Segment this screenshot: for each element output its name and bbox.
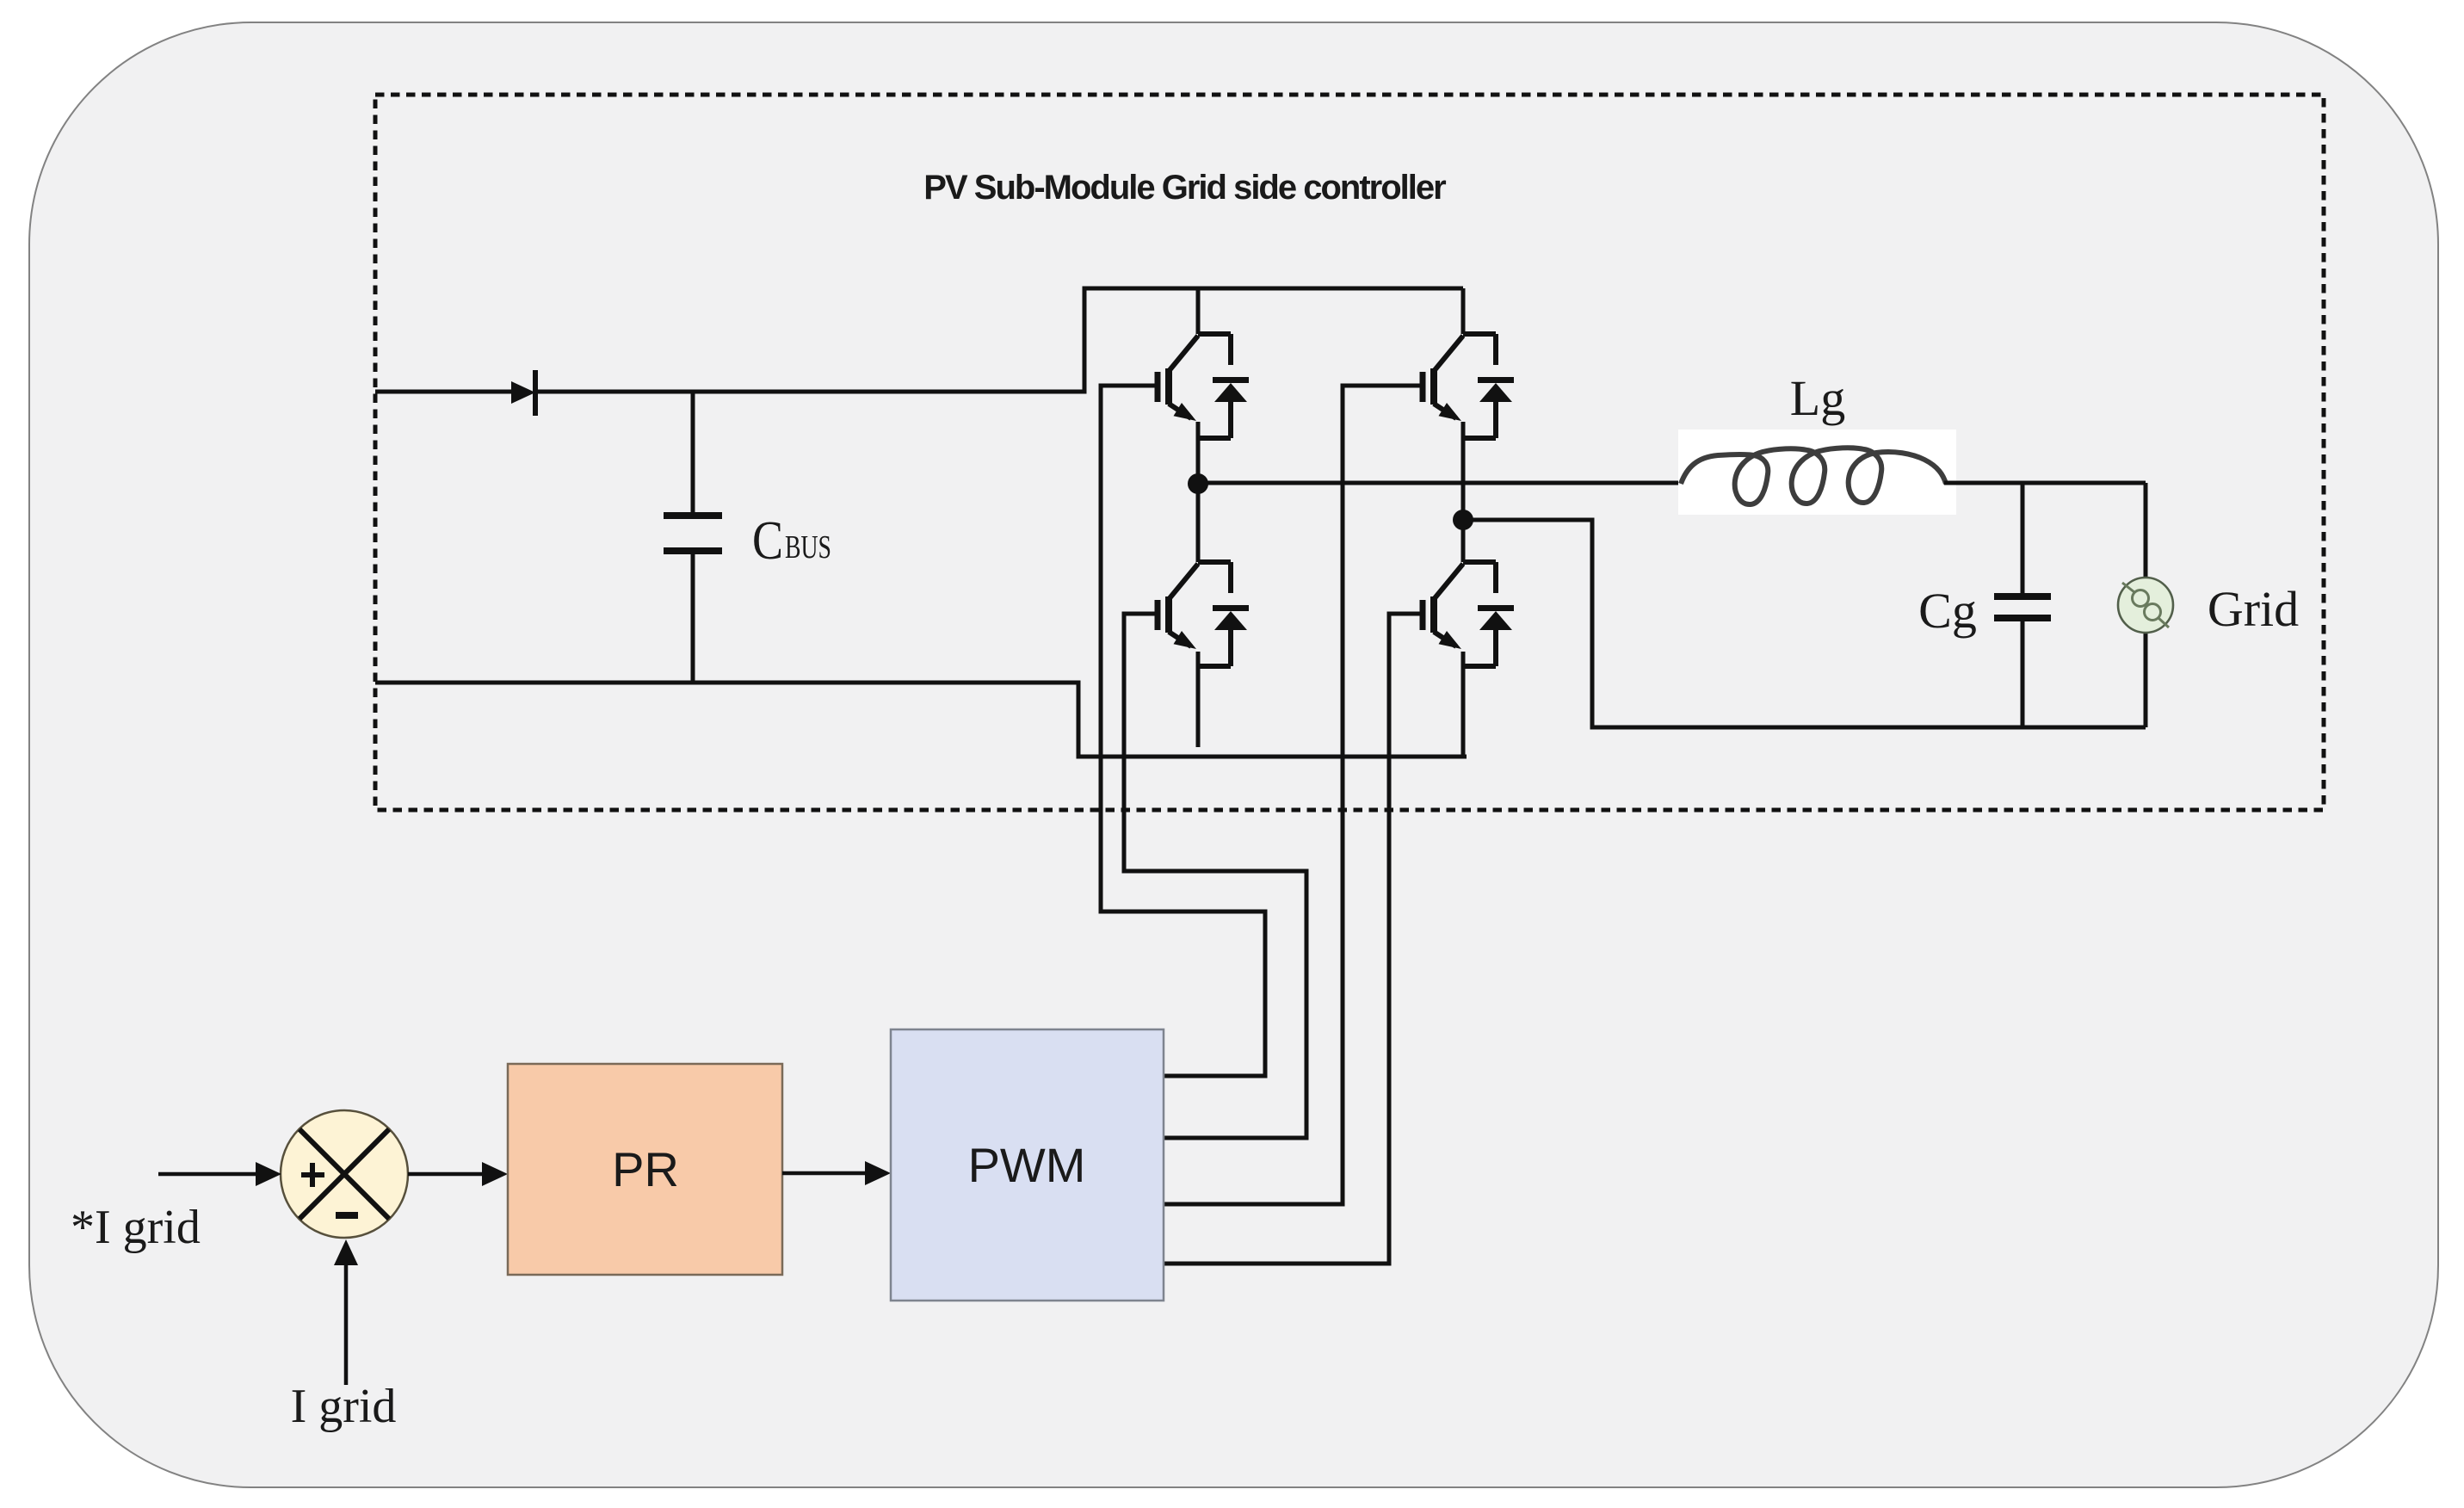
wire leg1 lower emitter: [1196, 652, 1201, 747]
wire gate drive S1 from PWM out1: [1101, 386, 1265, 1076]
wire leg1 collector: [1196, 288, 1201, 334]
wire PR to PWM: [782, 1171, 872, 1176]
wire feedback input: [344, 1257, 349, 1385]
svg-text:BUS: BUS: [785, 529, 831, 565]
wire DC+ after diode to bridge, up to top rail: [537, 288, 1463, 392]
diode D1 input blocking diode triangle: [511, 381, 535, 404]
capacitor CBUS: [664, 516, 722, 551]
svg-text:Cg: Cg: [1918, 583, 1977, 639]
grid chain-link icon: [2122, 583, 2169, 627]
arrowhead into summing junction left: [256, 1162, 281, 1186]
wire Cg top lead: [2021, 483, 2025, 597]
wire leg2 emitter to midpoint to S4: [1461, 422, 1466, 562]
arrowhead into PR: [482, 1162, 508, 1186]
block PWM modulator: [891, 1029, 1164, 1301]
minus sign: [336, 1212, 358, 1219]
transistor S4 (bottom-right IGBT with diode): [1423, 562, 1514, 666]
wire reference input: [158, 1172, 262, 1177]
plus sign: [301, 1163, 324, 1187]
wire DC+ input from dashed box edge: [375, 390, 513, 394]
wire AC output node A to grid: [1198, 481, 2146, 485]
wire DC- bottom bus: [375, 683, 1467, 757]
wire Lg exit stub: [1944, 481, 1957, 485]
transistor S2 (bottom-left IGBT with diode): [1158, 562, 1249, 666]
diode D1 cathode bar: [533, 370, 538, 416]
dashed controller box: [375, 95, 2324, 810]
inductor Lg white backdrop: [1678, 430, 1956, 515]
svg-text:PR: PR: [612, 1142, 679, 1196]
wire gate drive S2 from PWM out2: [1124, 614, 1306, 1138]
inductor Lg coil: [1681, 448, 1946, 504]
arrowhead into PWM: [865, 1161, 891, 1185]
svg-text:PV Sub-Module Grid side contro: PV Sub-Module Grid side controller: [923, 169, 1446, 207]
svg-text:Grid: Grid: [2208, 581, 2299, 637]
wire leg1 emitter to midpoint to S2: [1196, 422, 1201, 562]
wire gate drive S4 from PWM out4: [1164, 614, 1423, 1264]
block PR controller: [508, 1064, 782, 1275]
summing junction U1 circle: [281, 1110, 408, 1238]
arrowhead into summing junction bottom: [334, 1239, 358, 1265]
svg-text:PWM: PWM: [968, 1138, 1086, 1192]
node B junction dot leg2 midpoint: [1453, 510, 1473, 530]
grid source circle: [2118, 578, 2173, 633]
wire leg2 collector: [1461, 288, 1466, 334]
wire CBUS bottom lead: [691, 553, 695, 683]
wire gate drive S3 from PWM out3: [1164, 386, 1423, 1204]
svg-text:I grid: I grid: [291, 1380, 397, 1433]
svg-text:Lg: Lg: [1790, 370, 1845, 426]
summing junction X cross: [300, 1129, 389, 1219]
wire grid top lead: [2144, 483, 2148, 727]
transistor S3 (top-right IGBT with diode): [1423, 334, 1514, 438]
svg-text:C: C: [752, 510, 783, 571]
wire CBUS top lead: [691, 392, 695, 515]
wire node B to bottom return: [1463, 520, 2146, 727]
capacitor Cg: [1994, 596, 2051, 618]
node A junction dot leg1 midpoint: [1188, 473, 1208, 494]
svg-text:*I grid: *I grid: [71, 1201, 201, 1254]
wire Cg bottom lead: [2021, 617, 2025, 727]
wire leg2 lower emitter: [1461, 652, 1466, 757]
wire sum to PR: [408, 1172, 489, 1177]
transistor S1 (top-left IGBT with diode): [1158, 334, 1249, 438]
